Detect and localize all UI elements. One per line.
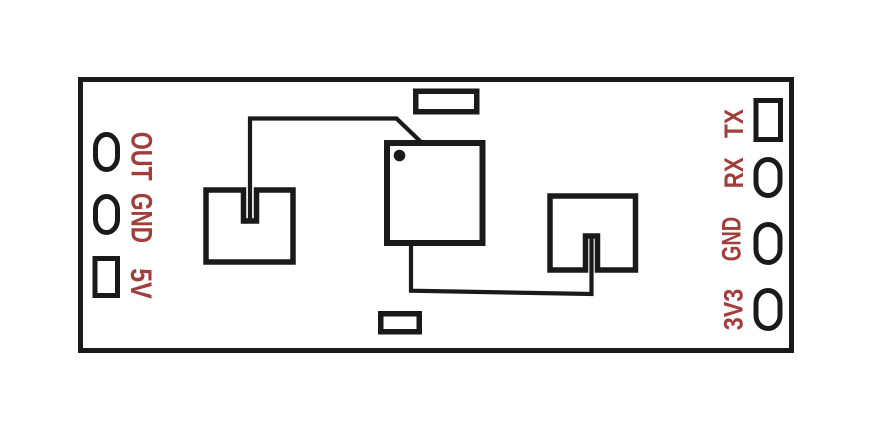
top component rectangle (416, 91, 477, 112)
svg-text:OUT: OUT (125, 132, 158, 181)
bottom component rectangle (381, 314, 420, 332)
wire from J1 notch to IC top-left (250, 119, 421, 223)
IC U1 square (387, 143, 483, 243)
svg-text:RX: RX (719, 157, 749, 188)
svg-text:5V: 5V (124, 268, 157, 299)
board outline (81, 80, 792, 351)
pad 3V3 (756, 291, 780, 329)
pad GND left (96, 197, 118, 233)
pad GND right (756, 225, 780, 263)
svg-text:GND: GND (125, 193, 158, 243)
svg-text:TX: TX (719, 109, 749, 138)
pad TX (756, 101, 781, 140)
connector J2 notched rectangle right (550, 196, 636, 270)
svg-text:3V3: 3V3 (719, 289, 749, 331)
pad RX (756, 160, 780, 196)
pad OUT (96, 135, 118, 170)
IC pin-1 dot (394, 150, 406, 162)
wire from IC bottom to J2 notch (411, 237, 592, 294)
pad 5V (95, 259, 118, 296)
svg-text:GND: GND (717, 217, 747, 262)
connector J1 notched rectangle left (206, 190, 293, 262)
